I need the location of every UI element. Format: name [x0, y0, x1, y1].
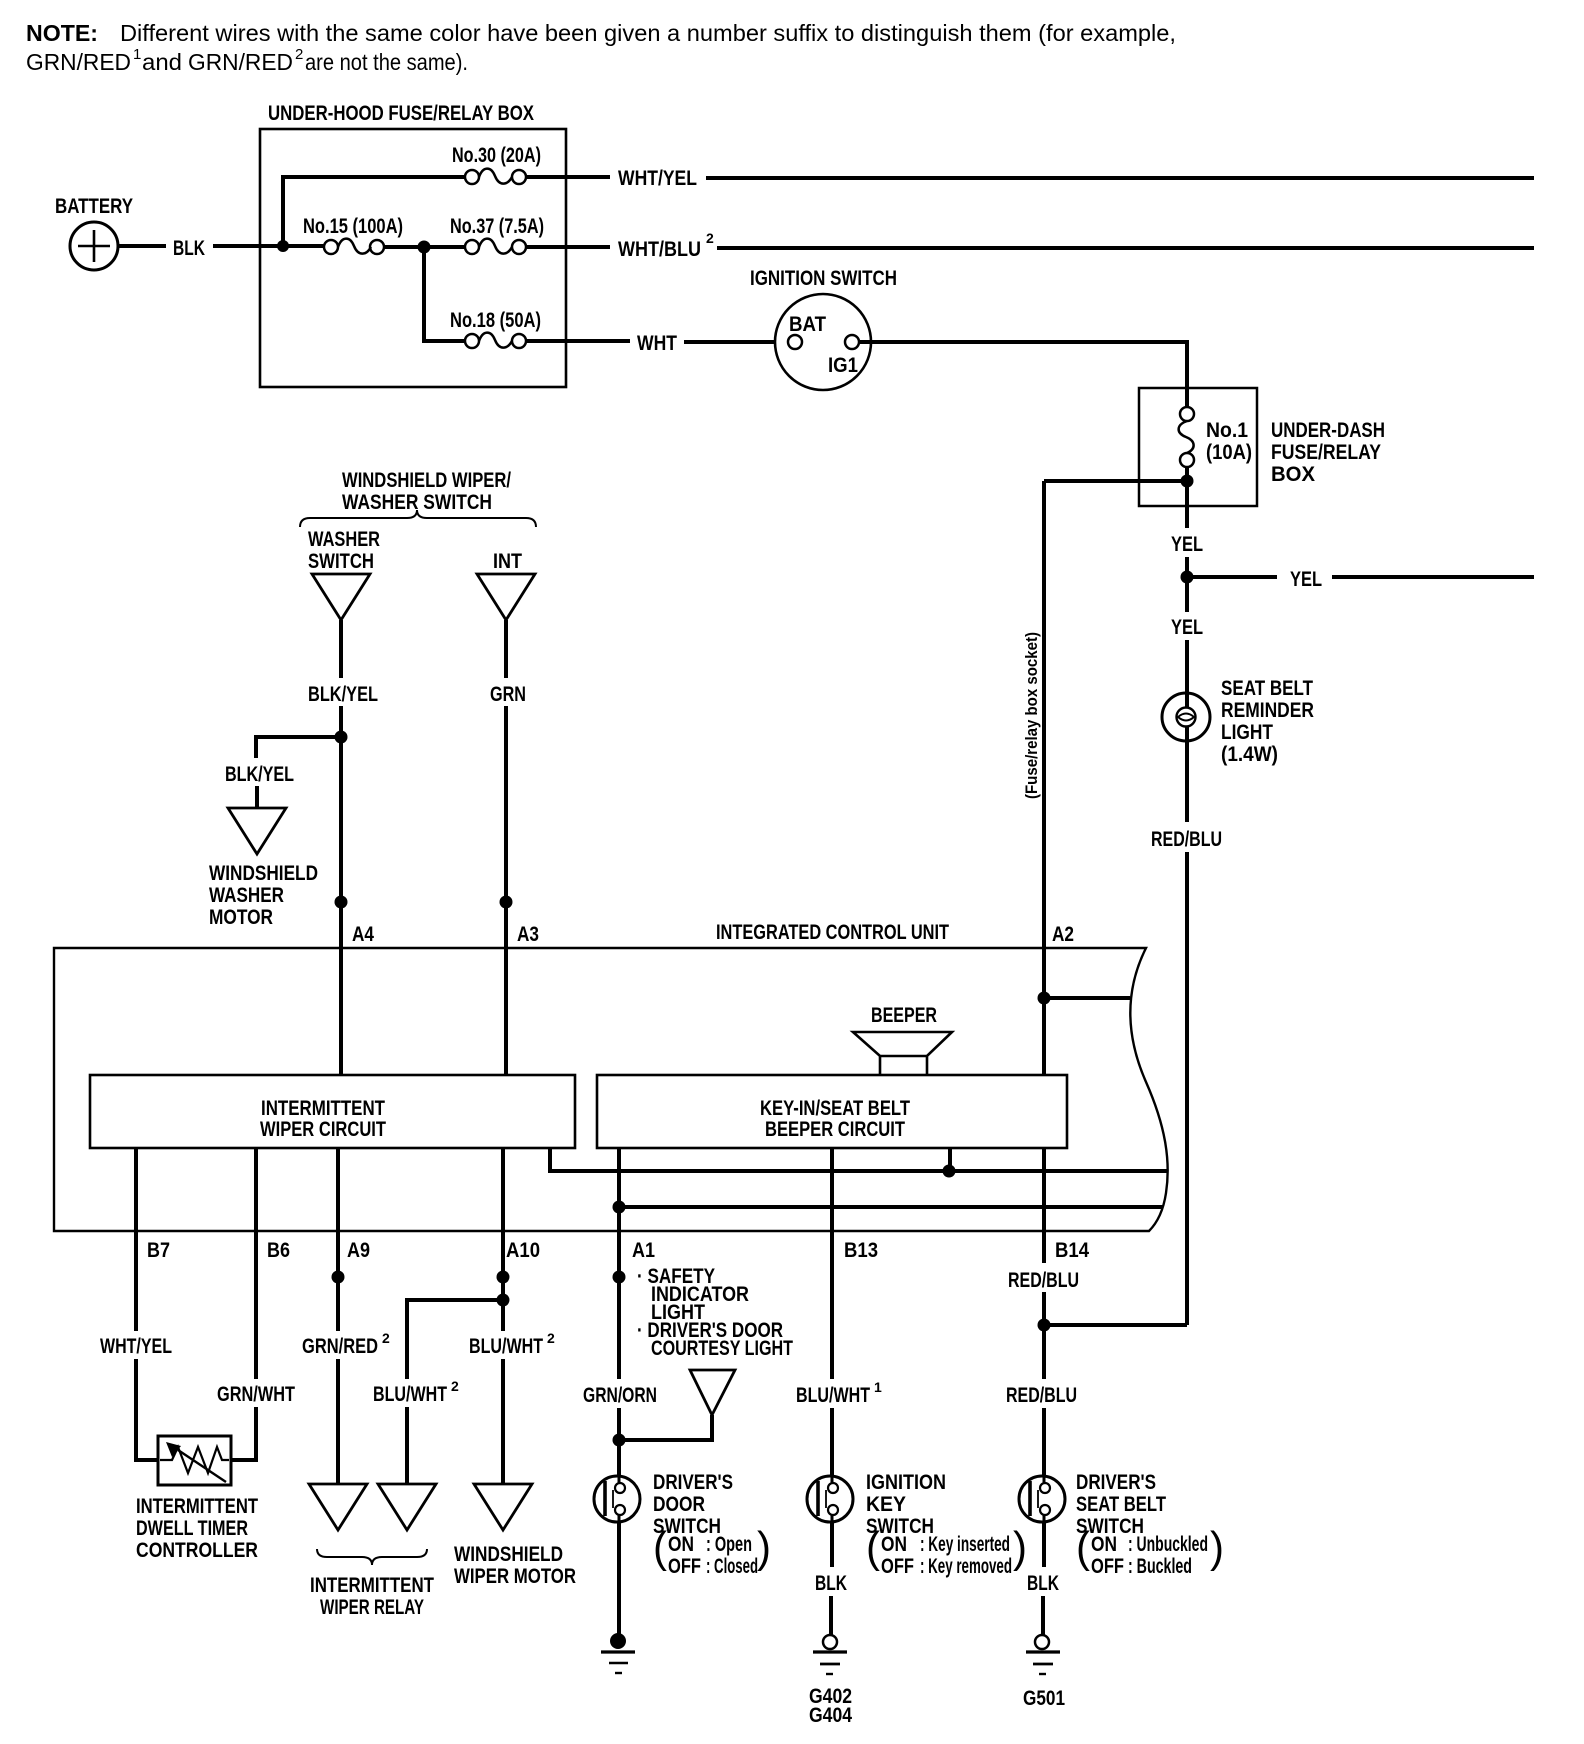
svg-text:IGNITION: IGNITION — [866, 1471, 946, 1494]
wire to fuse/relay box socket — [1044, 479, 1187, 483]
label safety indicator / courtesy light — [637, 1265, 793, 1360]
svg-text:B6: B6 — [267, 1239, 290, 1262]
svg-text:YEL: YEL — [1171, 533, 1203, 556]
svg-text:2: 2 — [295, 46, 303, 63]
svg-text:RED/BLU: RED/BLU — [1006, 1384, 1077, 1407]
wire A9 GRN/RED 2 — [302, 1148, 390, 1484]
svg-text:NOTE:: NOTE: — [26, 20, 98, 46]
brace windshield wiper/washer switch — [300, 510, 536, 527]
fuse No.18 (50A) — [450, 309, 541, 348]
windshield washer motor — [209, 808, 318, 929]
svg-text:BATTERY: BATTERY — [55, 195, 133, 218]
windshield wiper motor triangle — [474, 1484, 532, 1530]
note text line 1 — [26, 20, 1176, 46]
wire YEL branch right — [1187, 568, 1534, 591]
node YEL branch junction — [1181, 571, 1194, 584]
svg-text:INTEGRATED CONTROL UNIT: INTEGRATED CONTROL UNIT — [716, 921, 949, 944]
svg-text:INTERMITTENT: INTERMITTENT — [136, 1495, 258, 1518]
svg-text:KEY: KEY — [866, 1493, 906, 1516]
node A4 — [335, 896, 348, 909]
under-dash fuse/relay box — [1139, 388, 1385, 506]
svg-text:BLK/YEL: BLK/YEL — [225, 763, 294, 786]
node under-dash output junction — [1181, 475, 1194, 488]
switch INT — [477, 550, 535, 620]
svg-text:Different wires with the same: Different wires with the same color have… — [120, 20, 1176, 46]
svg-text:B14: B14 — [1055, 1239, 1089, 1262]
note text line 2 — [26, 46, 468, 75]
ground door switch — [601, 1633, 635, 1673]
driver's door switch — [594, 1476, 640, 1522]
svg-text:WHT/YEL: WHT/YEL — [618, 167, 697, 190]
svg-text:: Open: : Open — [706, 1533, 752, 1556]
svg-text:are not the same).: are not the same). — [305, 49, 468, 75]
fuse No.1 (10A) — [1179, 407, 1252, 467]
svg-text:(10A): (10A) — [1206, 441, 1252, 464]
wire B6 GRN/WHT — [217, 1148, 295, 1460]
svg-text:FUSE/RELAY: FUSE/RELAY — [1271, 441, 1381, 464]
intermittent wiper circuit box — [90, 1075, 575, 1148]
node A9 — [332, 1271, 345, 1284]
wire YEL below under-dash box — [1171, 481, 1203, 694]
svg-text:OFF: OFF — [881, 1555, 914, 1578]
node A1 bus junction — [613, 1201, 626, 1214]
svg-text:2: 2 — [451, 1378, 459, 1394]
svg-text:WHT/BLU: WHT/BLU — [618, 238, 701, 261]
svg-text:ON: ON — [881, 1533, 907, 1556]
svg-text:GRN/WHT: GRN/WHT — [217, 1383, 295, 1406]
svg-text:No.1: No.1 — [1206, 419, 1248, 442]
node A1 connector — [613, 1271, 626, 1284]
svg-text:BLK: BLK — [173, 237, 205, 260]
svg-text:GRN/RED: GRN/RED — [188, 49, 293, 75]
seat belt reminder light — [1162, 677, 1314, 766]
svg-text:GRN: GRN — [490, 683, 526, 706]
svg-text:YEL: YEL — [1290, 568, 1322, 591]
wire RED/BLU B14 lower — [1006, 1269, 1079, 1477]
wire BLK battery to fuse box — [118, 237, 324, 260]
label driver's seat belt switch — [1076, 1471, 1224, 1578]
windshield wiper/washer switch title — [342, 469, 511, 514]
node A3 — [500, 896, 513, 909]
svg-text:ON: ON — [668, 1533, 694, 1556]
svg-text:INT: INT — [493, 550, 522, 573]
under-hood fuse/relay box — [260, 102, 566, 387]
svg-text:2: 2 — [706, 230, 714, 246]
svg-text:SEAT BELT: SEAT BELT — [1076, 1493, 1166, 1516]
node washer branch junction — [335, 731, 348, 744]
svg-text:BOX: BOX — [1271, 463, 1315, 486]
svg-text:REMINDER: REMINDER — [1221, 699, 1314, 722]
wire GRN switch INT to A3 — [490, 620, 526, 1075]
svg-text:ON: ON — [1091, 1533, 1117, 1556]
svg-text:2: 2 — [547, 1330, 555, 1346]
brace intermittent wiper relay — [317, 1549, 427, 1565]
svg-text:KEY-IN/SEAT BELT: KEY-IN/SEAT BELT — [760, 1097, 910, 1120]
svg-text:BLK/YEL: BLK/YEL — [308, 683, 378, 706]
svg-text:: Key inserted: : Key inserted — [920, 1533, 1010, 1556]
courtesy light triangle — [690, 1370, 735, 1415]
wire courtesy light to A1 — [619, 1415, 712, 1440]
svg-text:BLU/WHT: BLU/WHT — [796, 1384, 870, 1407]
wire BLK to G402 — [815, 1521, 847, 1635]
svg-text:B13: B13 — [844, 1239, 878, 1262]
wire A10 BLU/WHT 2 — [469, 1148, 555, 1484]
wire BLK to G501 — [1027, 1521, 1059, 1635]
svg-text:A2: A2 — [1052, 923, 1074, 946]
node A10 — [497, 1271, 510, 1284]
svg-text:WASHER: WASHER — [308, 528, 380, 551]
wire internal bus from A1 — [619, 1205, 1163, 1209]
wire to fuse No.30 — [283, 177, 465, 246]
svg-text:WASHER: WASHER — [209, 884, 284, 907]
svg-text:(Fuse/relay box socket): (Fuse/relay box socket) — [1022, 632, 1041, 799]
svg-text:BAT: BAT — [789, 313, 826, 336]
svg-text:MOTOR: MOTOR — [209, 906, 273, 929]
svg-text:UNDER-DASH: UNDER-DASH — [1271, 419, 1385, 442]
svg-text:GRN/RED: GRN/RED — [302, 1335, 378, 1358]
node B14 branch junction — [1038, 1319, 1051, 1332]
wire B14 branch to seat belt light — [1044, 1323, 1187, 1327]
svg-text:1: 1 — [874, 1379, 882, 1395]
wire door switch to ground — [617, 1521, 621, 1637]
svg-text:(1.4W): (1.4W) — [1221, 743, 1278, 766]
svg-text:No.18 (50A): No.18 (50A) — [450, 309, 541, 332]
svg-text:CONTROLLER: CONTROLLER — [136, 1539, 258, 1562]
driver's seat belt switch — [1019, 1476, 1065, 1522]
wire stub beeper circuit to bus — [948, 1148, 952, 1171]
wire WHT — [526, 332, 788, 355]
svg-text:2: 2 — [382, 1330, 390, 1346]
svg-text:WINDSHIELD: WINDSHIELD — [209, 862, 318, 885]
wire junction down to fuse No.18 — [424, 247, 465, 341]
svg-text:A1: A1 — [632, 1239, 655, 1262]
fuse No.15 (100A) — [303, 215, 403, 254]
relay triangle 1 — [309, 1484, 367, 1530]
label driver's door switch — [653, 1471, 771, 1578]
node A10 branch — [497, 1294, 510, 1307]
ground G501 — [1023, 1635, 1065, 1710]
node A1 courtesy junction — [613, 1434, 626, 1447]
svg-text:WIPER CIRCUIT: WIPER CIRCUIT — [260, 1118, 386, 1141]
svg-text:INTERMITTENT: INTERMITTENT — [310, 1574, 434, 1597]
battery — [55, 195, 133, 270]
svg-text:LIGHT: LIGHT — [1221, 721, 1273, 744]
fuse No.37 (7.5A) — [450, 215, 544, 254]
svg-text:GRN/ORN: GRN/ORN — [583, 1384, 657, 1407]
svg-text:WHT: WHT — [637, 332, 677, 355]
svg-text:SWITCH: SWITCH — [308, 550, 374, 573]
svg-text:DRIVER'S: DRIVER'S — [653, 1471, 733, 1494]
wire B13 BLU/WHT 1 — [796, 1148, 882, 1477]
svg-text:GRN/RED: GRN/RED — [26, 49, 131, 75]
label windshield wiper motor — [454, 1543, 576, 1588]
svg-text:BLU/WHT: BLU/WHT — [469, 1335, 543, 1358]
relay triangle 2 — [378, 1484, 436, 1530]
wire BLK/YEL branch to washer motor — [225, 737, 341, 808]
svg-text:RED/BLU: RED/BLU — [1151, 828, 1222, 851]
svg-text:No.15 (100A): No.15 (100A) — [303, 215, 403, 238]
wire IG1 to under-dash fuse box — [859, 342, 1187, 407]
ground G402 G404 — [809, 1635, 852, 1727]
intermittent dwell timer controller — [136, 1436, 258, 1562]
svg-text:): ) — [757, 1523, 771, 1572]
svg-text:OFF: OFF — [668, 1555, 701, 1578]
node fuse15 output junction — [418, 241, 431, 254]
svg-text:BEEPER: BEEPER — [871, 1004, 937, 1027]
wire WHT/BLU 2 — [526, 230, 1534, 261]
wire fuse No.1 to socket junction — [1185, 467, 1189, 481]
svg-text:WINDSHIELD WIPER/: WINDSHIELD WIPER/ — [342, 469, 511, 492]
wire internal bus from wiper circuit — [550, 1148, 1168, 1171]
wire B7 WHT/YEL — [100, 1148, 172, 1460]
svg-text:YEL: YEL — [1171, 616, 1203, 639]
node A2 — [1038, 992, 1051, 1005]
washer switch — [308, 528, 380, 620]
svg-text:A10: A10 — [506, 1239, 540, 1262]
svg-text:DRIVER'S: DRIVER'S — [1076, 1471, 1156, 1494]
svg-text:No.37 (7.5A): No.37 (7.5A) — [450, 215, 544, 238]
wire BLK/YEL washer switch to A4 — [308, 620, 378, 1075]
wire A2 stub to edge — [1044, 996, 1130, 1000]
svg-text:A4: A4 — [352, 923, 374, 946]
svg-text:DWELL TIMER: DWELL TIMER — [136, 1517, 248, 1540]
svg-text:WHT/YEL: WHT/YEL — [100, 1335, 172, 1358]
wire RED/BLU below light — [1151, 726, 1222, 1325]
svg-text:(: ( — [866, 1523, 880, 1572]
svg-text:G501: G501 — [1023, 1687, 1065, 1710]
svg-text:1: 1 — [133, 46, 141, 63]
svg-text:A9: A9 — [347, 1239, 370, 1262]
svg-text:DOOR: DOOR — [653, 1493, 705, 1516]
svg-text:RED/BLU: RED/BLU — [1008, 1269, 1079, 1292]
wire BLU/WHT 2 branch — [373, 1300, 503, 1484]
label ignition key switch — [866, 1471, 1027, 1578]
svg-text:: Closed: : Closed — [706, 1555, 758, 1578]
svg-text:BLU/WHT: BLU/WHT — [373, 1383, 447, 1406]
beeper — [853, 1004, 952, 1076]
svg-text:(: ( — [1076, 1523, 1090, 1572]
svg-text:No.30 (20A): No.30 (20A) — [452, 144, 541, 167]
svg-text:A3: A3 — [517, 923, 539, 946]
svg-text:(: ( — [653, 1523, 667, 1572]
svg-text:INTERMITTENT: INTERMITTENT — [261, 1097, 385, 1120]
svg-text:WIPER RELAY: WIPER RELAY — [320, 1596, 424, 1619]
svg-text:): ) — [1210, 1523, 1224, 1572]
svg-text:UNDER-HOOD FUSE/RELAY BOX: UNDER-HOOD FUSE/RELAY BOX — [268, 102, 534, 125]
integrated control unit box — [54, 921, 1168, 1231]
svg-text:IG1: IG1 — [828, 354, 858, 377]
node battery feed junction — [277, 240, 289, 252]
svg-text:: Key removed: : Key removed — [920, 1555, 1012, 1578]
svg-text:IGNITION SWITCH: IGNITION SWITCH — [750, 267, 897, 290]
label intermittent wiper relay — [310, 1574, 434, 1619]
svg-text:COURTESY LIGHT: COURTESY LIGHT — [651, 1337, 793, 1360]
svg-text:B7: B7 — [147, 1239, 170, 1262]
fuse No.30 (20A) — [452, 144, 541, 184]
svg-text:WINDSHIELD: WINDSHIELD — [454, 1543, 563, 1566]
svg-text:OFF: OFF — [1091, 1555, 1124, 1578]
svg-text:: Unbuckled: : Unbuckled — [1128, 1533, 1208, 1556]
ignition key switch — [807, 1476, 853, 1522]
svg-text:BEEPER CIRCUIT: BEEPER CIRCUIT — [765, 1118, 905, 1141]
wire fuse/relay box socket vertical A2/B14 — [1042, 481, 1046, 1263]
wire A1 GRN/ORN — [583, 1148, 657, 1477]
node bus junction — [943, 1165, 956, 1178]
svg-text:BLK: BLK — [815, 1572, 847, 1595]
key-in/seat belt beeper circuit box — [597, 1075, 1067, 1148]
svg-text:BLK: BLK — [1027, 1572, 1059, 1595]
svg-text:): ) — [1013, 1523, 1027, 1572]
svg-text:WIPER MOTOR: WIPER MOTOR — [454, 1565, 576, 1588]
wire WHT/YEL — [526, 167, 1534, 190]
ignition switch — [750, 267, 897, 390]
svg-text:SEAT BELT: SEAT BELT — [1221, 677, 1313, 700]
svg-text:G404: G404 — [809, 1704, 852, 1727]
svg-text:and: and — [142, 49, 182, 75]
svg-text:: Buckled: : Buckled — [1128, 1555, 1192, 1578]
wire fuse15 to junction — [384, 245, 465, 249]
